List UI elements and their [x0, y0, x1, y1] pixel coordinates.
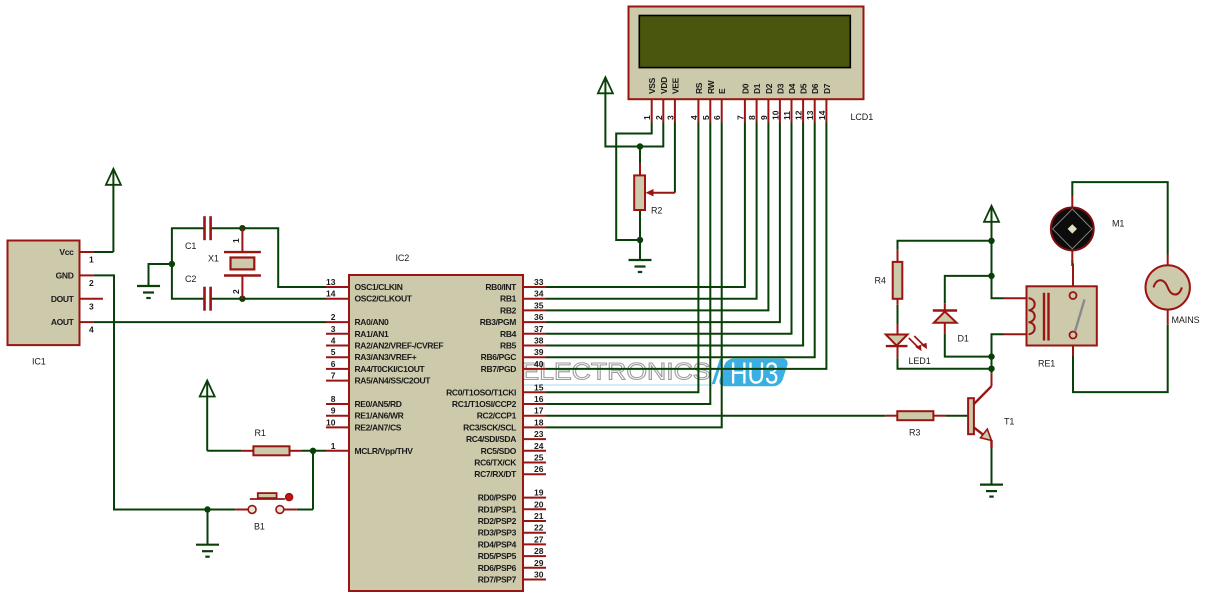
- svg-text:D3: D3: [775, 83, 785, 94]
- svg-text:RB1: RB1: [500, 294, 517, 304]
- svg-text:RC1/T1OSI/CCP2: RC1/T1OSI/CCP2: [452, 399, 517, 409]
- svg-text:3: 3: [665, 115, 675, 120]
- svg-text:35: 35: [534, 300, 544, 310]
- svg-text:33: 33: [534, 277, 544, 287]
- svg-text:RB5: RB5: [500, 341, 517, 351]
- svg-text:RB0/INT: RB0/INT: [485, 282, 517, 292]
- svg-text:7: 7: [735, 115, 745, 120]
- svg-text:26: 26: [534, 464, 544, 474]
- svg-text:AOUT: AOUT: [51, 317, 75, 327]
- svg-text:6: 6: [712, 115, 722, 120]
- svg-text:D1: D1: [958, 334, 969, 344]
- svg-text:14: 14: [326, 289, 336, 299]
- svg-text:8: 8: [747, 115, 757, 120]
- svg-text:36: 36: [534, 312, 544, 322]
- svg-text:D7: D7: [822, 83, 832, 94]
- svg-text:RE2/AN7/CS: RE2/AN7/CS: [355, 422, 402, 432]
- svg-text:17: 17: [534, 406, 544, 416]
- svg-text:D4: D4: [787, 83, 797, 94]
- svg-text:RB3/PGM: RB3/PGM: [480, 317, 517, 327]
- svg-text:OSC1/CLKIN: OSC1/CLKIN: [355, 282, 403, 292]
- svg-text:D6: D6: [810, 83, 820, 94]
- svg-text:RS: RS: [694, 82, 704, 94]
- svg-text:RE1: RE1: [1038, 358, 1055, 368]
- svg-text:5: 5: [331, 347, 336, 357]
- svg-text:9: 9: [331, 406, 336, 416]
- svg-text:RC0/T1OSO/T1CKI: RC0/T1OSO/T1CKI: [446, 387, 516, 397]
- svg-text:25: 25: [534, 453, 544, 463]
- svg-text:R3: R3: [909, 428, 920, 438]
- svg-text:RB4: RB4: [500, 329, 517, 339]
- svg-text:30: 30: [534, 570, 544, 580]
- svg-text:VDD: VDD: [659, 77, 669, 94]
- svg-text:1: 1: [642, 115, 652, 120]
- svg-text:RE1/AN6/WR: RE1/AN6/WR: [355, 411, 404, 421]
- svg-text:22: 22: [534, 523, 544, 533]
- svg-text:RB6/PGC: RB6/PGC: [481, 352, 517, 362]
- svg-text:15: 15: [534, 382, 544, 392]
- svg-text:7: 7: [331, 371, 336, 381]
- svg-text:28: 28: [534, 546, 544, 556]
- svg-text:2: 2: [654, 115, 664, 120]
- svg-text:9: 9: [759, 115, 769, 120]
- svg-text:IC1: IC1: [32, 357, 46, 367]
- svg-text:RA1/AN1: RA1/AN1: [355, 329, 390, 339]
- svg-text:RA3/AN3/VREF+: RA3/AN3/VREF+: [355, 352, 417, 362]
- svg-text:LED1: LED1: [909, 356, 931, 366]
- svg-text:DOUT: DOUT: [51, 294, 75, 304]
- svg-text:5: 5: [701, 115, 711, 120]
- svg-text:19: 19: [534, 488, 544, 498]
- svg-text:27: 27: [534, 534, 544, 544]
- svg-text:10: 10: [326, 417, 336, 427]
- svg-text:24: 24: [534, 441, 544, 451]
- svg-text:R1: R1: [255, 428, 266, 438]
- svg-text:D0: D0: [740, 83, 750, 94]
- svg-text:RD5/PSP5: RD5/PSP5: [478, 551, 517, 561]
- svg-text:OSC2/CLKOUT: OSC2/CLKOUT: [355, 294, 413, 304]
- svg-text:RD4/PSP4: RD4/PSP4: [478, 539, 517, 549]
- svg-text:11: 11: [782, 111, 792, 120]
- svg-text:29: 29: [534, 558, 544, 568]
- svg-text:HU3: HU3: [730, 356, 779, 391]
- svg-text:34: 34: [534, 289, 544, 299]
- svg-text:RC6/TX/CK: RC6/TX/CK: [474, 458, 517, 468]
- svg-text:20: 20: [534, 499, 544, 509]
- svg-text:C1: C1: [185, 241, 196, 251]
- svg-text:18: 18: [534, 417, 544, 427]
- svg-text:13: 13: [805, 110, 815, 120]
- svg-text:12: 12: [794, 110, 804, 120]
- svg-text:B1: B1: [254, 522, 265, 532]
- svg-text:10: 10: [770, 110, 780, 120]
- svg-text:C2: C2: [185, 274, 196, 284]
- svg-text:1: 1: [89, 255, 94, 265]
- svg-text:40: 40: [534, 359, 544, 369]
- svg-text:ELECTRONICS: ELECTRONICS: [522, 359, 711, 386]
- svg-text:R2: R2: [651, 206, 662, 216]
- svg-text:38: 38: [534, 336, 544, 346]
- svg-text:RE0/AN5/RD: RE0/AN5/RD: [355, 399, 402, 409]
- svg-text:4: 4: [89, 325, 94, 335]
- svg-text:VSS: VSS: [647, 77, 657, 94]
- svg-text:6: 6: [331, 359, 336, 369]
- svg-text:2: 2: [89, 278, 94, 288]
- svg-text:4: 4: [331, 336, 336, 346]
- svg-text:VEE: VEE: [670, 77, 680, 94]
- svg-text:2: 2: [231, 289, 241, 294]
- svg-text:Vcc: Vcc: [59, 247, 74, 257]
- svg-text:4: 4: [689, 115, 699, 120]
- svg-text:RB2: RB2: [500, 305, 517, 315]
- svg-text:23: 23: [534, 429, 544, 439]
- svg-text:RA2/AN2/VREF-/CVREF: RA2/AN2/VREF-/CVREF: [355, 341, 444, 351]
- svg-text:RD2/PSP2: RD2/PSP2: [478, 516, 517, 526]
- svg-text:RD0/PSP0: RD0/PSP0: [478, 493, 517, 503]
- svg-text:R4: R4: [875, 276, 886, 286]
- svg-text:MCLR/Vpp/THV: MCLR/Vpp/THV: [355, 446, 414, 456]
- svg-text:MAINS: MAINS: [1172, 315, 1200, 325]
- svg-text:X1: X1: [208, 254, 219, 264]
- svg-text:1: 1: [231, 238, 241, 243]
- svg-text:8: 8: [331, 394, 336, 404]
- svg-text:LCD1: LCD1: [851, 112, 874, 122]
- svg-text:RD3/PSP3: RD3/PSP3: [478, 528, 517, 538]
- svg-text:RA5/AN4/SS/C2OUT: RA5/AN4/SS/C2OUT: [355, 376, 432, 386]
- svg-text:M1: M1: [1112, 218, 1124, 228]
- svg-text:1: 1: [331, 441, 336, 451]
- svg-text:3: 3: [89, 301, 94, 311]
- svg-text:RD6/PSP6: RD6/PSP6: [478, 563, 517, 573]
- svg-text:RC3/SCK/SCL: RC3/SCK/SCL: [463, 422, 516, 432]
- svg-text:RB7/PGD: RB7/PGD: [481, 364, 517, 374]
- svg-text:D2: D2: [764, 83, 774, 94]
- svg-text:RC7/RX/DT: RC7/RX/DT: [474, 469, 517, 479]
- svg-text:E: E: [717, 88, 727, 94]
- svg-text:RA0/AN0: RA0/AN0: [355, 317, 390, 327]
- svg-text:37: 37: [534, 324, 544, 334]
- svg-text:RC5/SDO: RC5/SDO: [481, 446, 517, 456]
- svg-text:GND: GND: [56, 270, 74, 280]
- svg-text:13: 13: [326, 277, 336, 287]
- svg-text:IC2: IC2: [396, 253, 410, 263]
- svg-text:RW: RW: [706, 79, 716, 94]
- svg-text:14: 14: [817, 110, 827, 120]
- svg-text:RA4/T0CKI/C1OUT: RA4/T0CKI/C1OUT: [355, 364, 426, 374]
- svg-text:2: 2: [331, 312, 336, 322]
- svg-text:RC2/CCP1: RC2/CCP1: [477, 411, 517, 421]
- svg-text:RD1/PSP1: RD1/PSP1: [478, 504, 517, 514]
- svg-text:21: 21: [534, 511, 544, 521]
- svg-text:D5: D5: [799, 83, 809, 94]
- svg-text:D1: D1: [752, 83, 762, 94]
- svg-text:RC4/SDI/SDA: RC4/SDI/SDA: [466, 434, 516, 444]
- svg-text:39: 39: [534, 347, 544, 357]
- svg-text:3: 3: [331, 324, 336, 334]
- svg-text:T1: T1: [1004, 417, 1014, 427]
- svg-text:16: 16: [534, 394, 544, 404]
- svg-text:RD7/PSP7: RD7/PSP7: [478, 575, 517, 585]
